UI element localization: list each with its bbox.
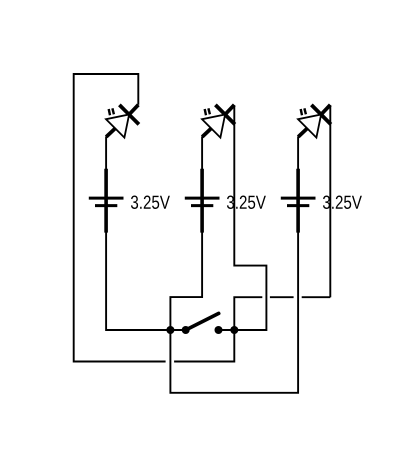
switch S1 right contact dot xyxy=(215,326,223,334)
label 3.25V (B3) xyxy=(323,196,362,209)
switch S1 lever xyxy=(186,313,219,330)
label 3.25V (B2) xyxy=(227,196,266,209)
wire: LED2 anode to battery B2 xyxy=(201,137,203,170)
wire: LED1 cathode riser, top loop, left side, bottom run (left of hop) xyxy=(74,74,166,362)
wire: battery B2 minus down, left, down to node A xyxy=(170,232,202,330)
wire: LED3 cathode down to cross-wire level xyxy=(329,105,331,297)
LED D1 xyxy=(106,105,139,138)
wire: cross-wire segment right of hop xyxy=(302,296,331,298)
wire: LED1 anode to battery B1 xyxy=(105,137,107,170)
switch S1 left contact dot xyxy=(182,326,190,334)
battery B2 xyxy=(185,169,220,233)
wire: battery B3 minus down, left along bottom, up to node A xyxy=(170,232,298,393)
wire: LED2 cathode down, detour right, down to switch wire, left to right contact xyxy=(219,105,267,330)
node B junction dot xyxy=(230,326,238,334)
battery B3 xyxy=(281,169,316,233)
wire: node B up-column and cross-wire to LED3 cathode (with hop gaps) xyxy=(234,297,262,330)
LED D3 xyxy=(298,105,331,138)
node A junction dot xyxy=(166,326,174,334)
wire: bottom run (right of hop) up to node SW-B column xyxy=(174,330,234,362)
wire: cross-wire segment between hops xyxy=(270,296,294,298)
LED D2 xyxy=(202,105,235,138)
battery B1 xyxy=(89,169,124,233)
wire: LED3 anode to battery B3 xyxy=(297,137,299,170)
wire: battery B1 minus down and right to node A, on to switch left contact xyxy=(106,232,186,330)
label 3.25V (B1) xyxy=(131,196,170,209)
